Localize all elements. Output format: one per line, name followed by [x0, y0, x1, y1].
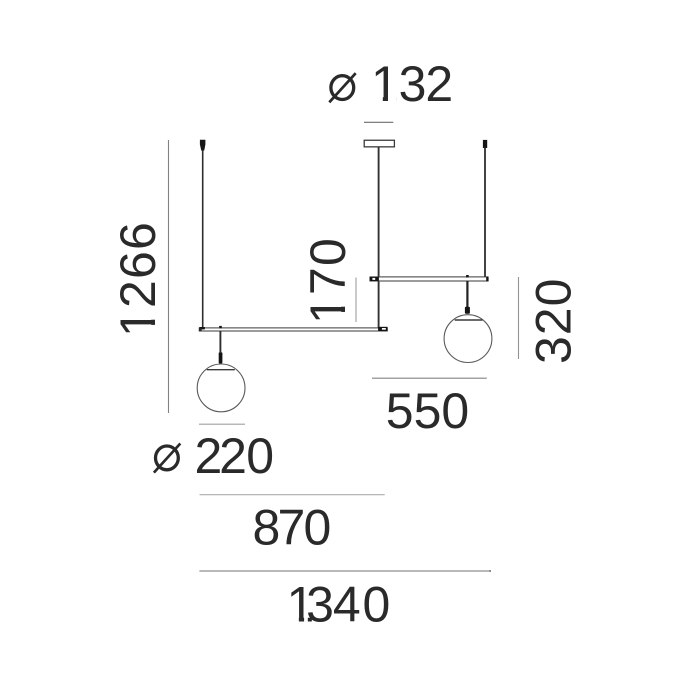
lower bar right connector block: [378, 327, 387, 331]
svg-text:320: 320: [526, 278, 582, 364]
label ø 132: [329, 73, 355, 102]
right pendant stem: [466, 281, 468, 307]
right cable anchor: [483, 140, 487, 148]
label ø 220: [154, 444, 180, 473]
svg-text:550: 550: [386, 383, 469, 439]
left pendant stem: [219, 331, 221, 352]
dim line ø220: [199, 423, 245, 425]
upper bar (550 arm): [370, 277, 488, 281]
lower bar (870 arm): [199, 328, 387, 331]
left pendant pin above bar: [219, 326, 222, 328]
serif trims on digit 1 glyphs: [151, 96, 397, 622]
dim line 170: [355, 278, 357, 323]
svg-text:870: 870: [253, 499, 332, 555]
right sphere neck chord: [455, 319, 483, 321]
left sphere: [197, 364, 245, 412]
dim line 550: [372, 377, 487, 379]
left suspension cable: [202, 150, 204, 328]
lower bar left cable fitting: [199, 327, 204, 329]
dim line ø132: [364, 121, 393, 123]
svg-text:170: 170: [300, 237, 356, 324]
left pendant socket: [219, 352, 223, 363]
svg-text:1340: 1340: [287, 577, 391, 633]
dim line 320: [518, 277, 520, 359]
right sphere: [444, 315, 492, 363]
left sphere neck chord: [207, 369, 235, 371]
svg-text:132: 132: [371, 56, 453, 112]
dim line 870: [200, 494, 385, 496]
center stem wire: [378, 147, 380, 329]
right pendant socket: [465, 307, 470, 314]
upper bar left connector block: [370, 277, 379, 281]
svg-text:220: 220: [195, 428, 275, 484]
right suspension cable: [484, 148, 486, 278]
dim line 1340: [199, 570, 491, 572]
right pendant pin above bar: [466, 275, 469, 278]
upper bar right end cap: [486, 277, 488, 282]
svg-text:1266: 1266: [110, 221, 166, 337]
left cable anchor: [200, 140, 206, 151]
dim line 1266: [168, 140, 170, 413]
canopy: [364, 140, 394, 147]
